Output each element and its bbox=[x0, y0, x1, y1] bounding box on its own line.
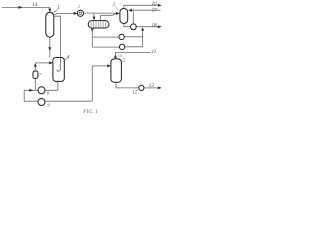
wire elbow down to bottom recycle bbox=[91, 66, 93, 101]
wire V5 top line 11 bbox=[115, 52, 150, 58]
svg-text:2: 2 bbox=[78, 5, 81, 10]
pump P3 circle bbox=[119, 34, 124, 39]
wire P5 outlet line 13 bbox=[144, 87, 157, 89]
pump P5 circle bbox=[139, 85, 144, 90]
wire canister line to vessel V2 bbox=[35, 62, 50, 64]
arrow line 16 out bbox=[158, 4, 162, 7]
arrow into vessel V5 bbox=[107, 64, 111, 67]
wire V3 bottom outlet bbox=[124, 24, 131, 27]
arrow up above canister bbox=[34, 63, 37, 66]
wire drum bottom drop line bbox=[91, 28, 93, 47]
wire branch to pump P3 bbox=[92, 36, 119, 38]
svg-text:7: 7 bbox=[39, 72, 42, 77]
wire feed drop into vessel 1 bbox=[49, 7, 51, 11]
canister filter 7 bbox=[33, 71, 38, 78]
pump P4 circle bbox=[119, 44, 124, 49]
drum 15 internal hatching bbox=[91, 21, 105, 27]
vessel V3 column bbox=[120, 8, 128, 23]
arrow into pump P1 bbox=[74, 12, 78, 15]
wire canister outlet up bbox=[34, 63, 36, 71]
svg-text:14: 14 bbox=[32, 2, 38, 8]
leader for label 4 bbox=[63, 58, 67, 62]
svg-text:11: 11 bbox=[152, 50, 157, 55]
wire V1 side outlet to V2 dip tube bbox=[54, 16, 61, 71]
wire drum top riser to V3 feed bbox=[101, 14, 116, 21]
wire feed line 14 bbox=[2, 6, 50, 8]
wire branch to pump P4 bbox=[92, 46, 119, 48]
svg-text:4: 4 bbox=[67, 54, 70, 60]
leader for label 12 bbox=[137, 90, 138, 91]
wire branch to vessel V5 feed bbox=[92, 65, 107, 67]
arrow collector up into product line bbox=[141, 27, 144, 30]
wire P3 outlet bbox=[124, 36, 142, 38]
svg-text:13: 13 bbox=[149, 84, 155, 89]
leader for label 1 bbox=[54, 10, 58, 13]
arrow up on V5 top line bbox=[114, 55, 117, 58]
arrow into vessel V2 left bbox=[49, 61, 53, 64]
arrow reflux into V3 bbox=[128, 9, 132, 12]
vessel V1 tall column bbox=[46, 12, 54, 37]
pump P1 circle bbox=[77, 10, 83, 16]
wire P2 riser bbox=[132, 10, 134, 24]
arrow on V1 bottoms line bbox=[48, 47, 51, 51]
pump P1 inner detail bbox=[79, 12, 81, 14]
svg-text:9: 9 bbox=[48, 102, 51, 107]
wire P2 outlet line 18 bbox=[136, 26, 157, 28]
arrow line 18 out bbox=[158, 25, 162, 28]
wire canister riser bbox=[34, 78, 36, 90]
vessel V5 stripper bbox=[111, 59, 122, 82]
svg-text:1: 1 bbox=[57, 5, 60, 11]
arrow on feed line bbox=[19, 6, 23, 9]
arrow into vessel V3 bbox=[116, 12, 120, 15]
arrow into drum 15 bbox=[93, 17, 96, 21]
svg-text:10: 10 bbox=[118, 53, 123, 58]
wire V3 reflux and distillate line bbox=[131, 9, 160, 11]
arrow drum bottom outlet bbox=[91, 29, 94, 32]
svg-text:5: 5 bbox=[123, 59, 126, 64]
svg-text:16: 16 bbox=[152, 2, 158, 7]
arrow into vessel 1 bbox=[48, 9, 51, 13]
wire P1 outlet to vessel V3 bbox=[84, 12, 117, 14]
svg-text:8: 8 bbox=[47, 91, 50, 96]
pump P2 circle bbox=[131, 24, 137, 30]
drum 15 horizontal vessel bbox=[88, 21, 109, 28]
leader for label 3 bbox=[115, 6, 118, 10]
svg-text:17: 17 bbox=[152, 9, 158, 14]
svg-text:12: 12 bbox=[132, 91, 137, 96]
wire branch down into drum 15 bbox=[93, 13, 95, 17]
arrow on recycle line bbox=[29, 89, 33, 92]
wire V3 top line 16 bbox=[124, 5, 157, 8]
pump C9 circle bbox=[38, 99, 45, 106]
wire V1 bottoms line to V2 bbox=[49, 38, 51, 58]
svg-text:3: 3 bbox=[113, 3, 116, 8]
svg-text:18: 18 bbox=[152, 23, 158, 28]
svg-text:FIG. 1: FIG. 1 bbox=[82, 109, 98, 115]
pump C8 circle bbox=[38, 87, 45, 94]
wire V5 bottom outlet bbox=[116, 82, 139, 88]
wire P4 outlet bbox=[125, 46, 143, 48]
wire bottom recycle loop bbox=[24, 82, 92, 102]
vessel V2 reactor bbox=[53, 58, 64, 82]
vessel V2 internal mark bbox=[58, 64, 61, 67]
wire V1 vapor line to pump P1 bbox=[54, 13, 77, 14]
arrow line 13 out bbox=[158, 86, 162, 89]
wire collector riser bbox=[142, 29, 144, 47]
